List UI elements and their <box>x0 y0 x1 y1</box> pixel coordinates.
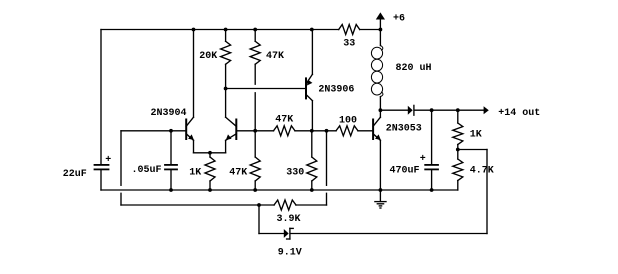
wire 1K tail top lead <box>209 153 211 157</box>
svg-text:47K: 47K <box>266 51 284 62</box>
svg-text:+6: +6 <box>393 13 405 24</box>
wire Q1 base <box>121 130 186 132</box>
wire 1K right bottom lead <box>457 145 459 150</box>
wire zener row right <box>291 233 488 235</box>
wire 1K tail bottom lead <box>209 181 211 190</box>
wire 1K right top lead <box>457 110 459 123</box>
wire main bottom rail <box>101 189 458 191</box>
label 2N3053 <box>386 123 422 134</box>
svg-text:470uF: 470uF <box>390 165 420 176</box>
label 47K upper <box>266 51 284 62</box>
wire output rail diode anode <box>380 109 407 111</box>
label 470uF <box>390 165 420 176</box>
wire 330 bottom lead <box>311 181 313 190</box>
transistor Q2 collector diagonal <box>226 117 237 126</box>
svg-text:.05uF: .05uF <box>132 165 162 176</box>
wire feedback rail left segment <box>121 204 274 206</box>
resistor 100 <box>336 126 358 136</box>
resistor 20K <box>221 41 231 64</box>
wire 4.7K bottom lead <box>457 181 459 191</box>
node junction dot mid rail x=312 <box>310 129 314 133</box>
node junction dot Q1 base/.05uF <box>169 129 173 133</box>
transistor Q2 emitter diagonal <box>226 134 237 141</box>
svg-text:3.9K: 3.9K <box>277 214 301 225</box>
wire 47K lower bottom lead <box>254 181 256 190</box>
ground <box>375 190 386 208</box>
wire feedback vertical x=326 lower <box>326 193 328 205</box>
transistor Q4 bar <box>372 120 374 140</box>
wire inner vertical x=121 upper <box>120 131 122 186</box>
wire 20K top lead <box>225 30 227 42</box>
label C1 plus sign <box>105 155 111 166</box>
wire mid rail 100 to Q4 base <box>358 130 373 132</box>
wire Q2 base <box>236 130 255 132</box>
svg-text:47K: 47K <box>275 114 293 125</box>
transistor Q1 collector diagonal <box>186 117 193 126</box>
svg-text:9.1V: 9.1V <box>278 247 302 258</box>
label 330 <box>286 167 304 178</box>
node junction dot 47K bottom <box>253 188 257 192</box>
label 33 <box>343 39 355 50</box>
resistor 33 <box>339 25 360 35</box>
label 100 <box>339 116 357 127</box>
transistor Q3 collector diagonal <box>306 95 312 101</box>
wire 1K/4.7K junction to right <box>458 149 487 151</box>
wire Q3 emitter vertical <box>311 30 313 75</box>
label 20K <box>199 51 217 62</box>
svg-text:+: + <box>420 154 426 165</box>
wire emitter rail of pair <box>194 152 226 154</box>
transistor Q4 collector diagonal <box>373 117 380 126</box>
wire zener row left <box>259 233 284 235</box>
node junction dot 470uF bottom <box>430 188 434 192</box>
wire 20K bottom lead <box>225 64 227 88</box>
wire feedback rail right segment <box>296 204 327 206</box>
wire Q4 collector vertical <box>379 110 381 117</box>
node junction dot 470uF top <box>430 108 434 112</box>
resistor 47K upper <box>250 41 260 64</box>
resistor 47K mid horizontal <box>274 126 296 136</box>
node junction dot top rail x=312 <box>310 28 314 32</box>
wire top rail right segment <box>360 29 381 31</box>
label 47K mid <box>275 114 293 125</box>
svg-text:+14 out: +14 out <box>498 108 540 119</box>
wire +6 arrow stem <box>379 20 381 30</box>
transistor Q3 bar <box>305 78 307 98</box>
wire Q1 emitter vertical <box>193 140 195 153</box>
svg-text:22uF: 22uF <box>63 169 87 180</box>
svg-text:4.7K: 4.7K <box>470 165 494 176</box>
node junction dot Q4 emitter/ground <box>379 188 383 192</box>
transistor Q2 bar <box>235 120 237 140</box>
label 9.1V <box>278 247 302 258</box>
label 1K tail <box>189 167 201 178</box>
svg-text:33: 33 <box>343 39 355 50</box>
label +6 <box>393 13 405 24</box>
wire Q3 collector vertical <box>311 101 313 131</box>
svg-text:100: 100 <box>339 116 357 127</box>
label +14 out <box>498 108 540 119</box>
label 22uF <box>63 169 87 180</box>
node junction dot .05uF bottom <box>169 188 173 192</box>
capacitor C2 .05uF plates <box>165 165 177 170</box>
node junction dot 1K bottom <box>208 188 212 192</box>
wire 47K lower top lead <box>254 131 256 157</box>
resistor 1K tail <box>205 157 215 181</box>
node junction dot top rail x=225 <box>224 28 228 32</box>
node junction dot emitter rail <box>208 151 212 155</box>
node junction dot top rail x=193 <box>192 28 196 32</box>
wire inductor top lead <box>379 30 381 46</box>
wire right feedback vertical <box>486 150 488 234</box>
wire Q1 collector vertical <box>193 30 195 118</box>
label 1K right <box>470 129 482 140</box>
diode D1 <box>408 105 414 115</box>
wire .05uF bottom lead <box>170 170 172 190</box>
wire 47K lead crossing above <box>254 64 256 84</box>
label 47K lower <box>229 167 247 178</box>
transistor Q4 emitter diagonal <box>373 134 380 141</box>
svg-text:820 uH: 820 uH <box>396 63 432 74</box>
wire inner vertical x=121 lower <box>120 193 122 205</box>
wire mid rail 47K to 330 node <box>295 130 336 132</box>
wire 470uF top lead <box>431 110 433 164</box>
label 2N3904 <box>151 108 187 119</box>
transistor Q2 emitter arrow <box>226 134 232 140</box>
wire 47K top lead <box>254 30 256 42</box>
resistor 1K right <box>453 123 463 145</box>
label .05uF <box>132 165 162 176</box>
node junction dot mid rail x=255 <box>253 129 257 133</box>
node junction dot +6 supply <box>379 28 383 32</box>
node junction dot 330 bottom <box>310 188 314 192</box>
svg-text:1K: 1K <box>470 129 482 140</box>
wire left vertical upper (from top rail to C1) <box>100 30 102 165</box>
resistor 4.7K <box>453 159 463 181</box>
node junction dot 1K/4.7K <box>456 148 460 152</box>
transistor Q1 emitter diagonal <box>186 134 193 141</box>
inductor L1 820uH <box>371 46 383 97</box>
resistor 330 <box>307 157 317 181</box>
label C3 plus sign <box>420 154 426 165</box>
wire zener branch vertical <box>258 205 260 234</box>
resistor 3.9K <box>274 200 296 210</box>
node junction dot 20K/2N3906 base <box>224 87 228 91</box>
power +6 arrow <box>376 12 385 19</box>
wire Q4 emitter vertical <box>379 140 381 190</box>
node junction dot mid rail x=326 <box>325 129 329 133</box>
node junction dot 1K top <box>456 108 460 112</box>
resistor 47K lower <box>250 157 260 181</box>
wire 330 top lead <box>311 131 313 157</box>
svg-text:330: 330 <box>286 167 304 178</box>
wire Q2 collector vertical <box>225 89 227 118</box>
label 2N3906 <box>318 85 354 96</box>
svg-text:2N3053: 2N3053 <box>386 123 422 134</box>
label 820 uH <box>396 63 432 74</box>
wire 47K lead crossing below <box>254 93 256 131</box>
transistor Q4 emitter arrow <box>375 134 381 140</box>
wire feedback vertical x=326 upper <box>326 131 328 186</box>
svg-text:47K: 47K <box>229 167 247 178</box>
wire 4.7K top lead <box>457 150 459 160</box>
wire Q2 emitter vertical <box>225 140 227 153</box>
capacitor C3 470uF plates <box>425 165 438 170</box>
svg-text:2N3904: 2N3904 <box>151 108 187 119</box>
wire mid rail 255 to 47K <box>255 130 273 132</box>
svg-text:1K: 1K <box>189 167 201 178</box>
wire .05uF top lead <box>170 131 172 165</box>
wire inductor bottom lead <box>379 97 381 111</box>
node junction dot top rail x=255 <box>253 28 257 32</box>
wire top rail left segment <box>101 29 339 31</box>
node junction dot inductor/collector/diode <box>379 108 383 112</box>
wire 470uF bottom lead <box>431 170 433 190</box>
transistor Q1 emitter arrow <box>188 134 194 140</box>
capacitor C1 22uF plates <box>95 165 109 170</box>
output +14 arrow <box>484 106 489 114</box>
svg-text:20K: 20K <box>199 51 217 62</box>
label 4.7K <box>470 165 494 176</box>
node junction dot zener branch <box>257 203 261 207</box>
transistor Q3 emitter diagonal <box>306 74 312 84</box>
transistor Q3 emitter arrow <box>307 80 312 86</box>
svg-text:+: + <box>105 155 111 166</box>
diode D2 zener 9.1V <box>284 228 293 239</box>
svg-text:2N3906: 2N3906 <box>318 85 354 96</box>
wire left vertical lower (C1 to bottom rail) <box>100 170 102 190</box>
wire output rail after diode <box>415 109 484 111</box>
wire 2N3906 base <box>226 88 306 90</box>
label 3.9K <box>277 214 301 225</box>
transistor Q1 bar <box>185 120 187 140</box>
